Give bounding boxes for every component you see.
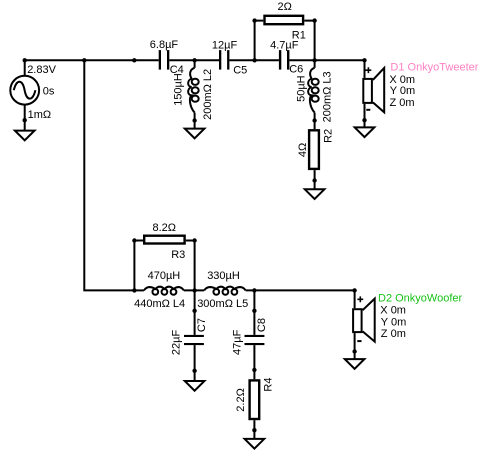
svg-text:C6: C6 — [289, 64, 303, 76]
svg-text:D2 OnkyoWoofer: D2 OnkyoWoofer — [378, 292, 463, 304]
svg-text:47µF: 47µF — [232, 329, 244, 355]
svg-text:22µF: 22µF — [171, 330, 183, 356]
svg-text:4Ω: 4Ω — [297, 143, 309, 157]
svg-text:150µH: 150µH — [173, 73, 185, 106]
svg-text:Z 0m: Z 0m — [390, 97, 415, 109]
svg-text:300mΩ L5: 300mΩ L5 — [197, 298, 248, 310]
svg-text:R2: R2 — [323, 129, 335, 143]
svg-text:200mΩ L3: 200mΩ L3 — [322, 71, 334, 122]
svg-text:440mΩ L4: 440mΩ L4 — [134, 298, 185, 310]
svg-text:12µF: 12µF — [212, 39, 238, 51]
svg-text:C7: C7 — [196, 318, 208, 332]
svg-text:Y 0m: Y 0m — [381, 316, 406, 328]
svg-text:6.8µF: 6.8µF — [150, 39, 179, 51]
svg-text:Y 0m: Y 0m — [390, 85, 415, 97]
svg-text:C5: C5 — [233, 64, 247, 76]
svg-text:Z 0m: Z 0m — [381, 328, 406, 340]
svg-text:4.7µF: 4.7µF — [270, 39, 299, 51]
svg-text:470µH: 470µH — [148, 270, 181, 282]
svg-text:2.2Ω: 2.2Ω — [235, 388, 247, 412]
svg-text:200mΩ L2: 200mΩ L2 — [202, 69, 214, 120]
svg-text:R3: R3 — [171, 249, 185, 261]
svg-text:C8: C8 — [256, 318, 268, 332]
svg-text:1mΩ: 1mΩ — [28, 109, 52, 121]
svg-text:X 0m: X 0m — [380, 305, 406, 317]
svg-text:D1 OnkyoTweeter: D1 OnkyoTweeter — [390, 62, 478, 74]
svg-text:8.2Ω: 8.2Ω — [153, 222, 177, 234]
svg-text:0s: 0s — [43, 86, 55, 98]
svg-text:50µH: 50µH — [296, 75, 308, 102]
svg-text:330µH: 330µH — [207, 270, 240, 282]
svg-text:2Ω: 2Ω — [278, 1, 292, 13]
svg-text:2.83V: 2.83V — [27, 64, 56, 76]
svg-text:R4: R4 — [263, 378, 275, 392]
